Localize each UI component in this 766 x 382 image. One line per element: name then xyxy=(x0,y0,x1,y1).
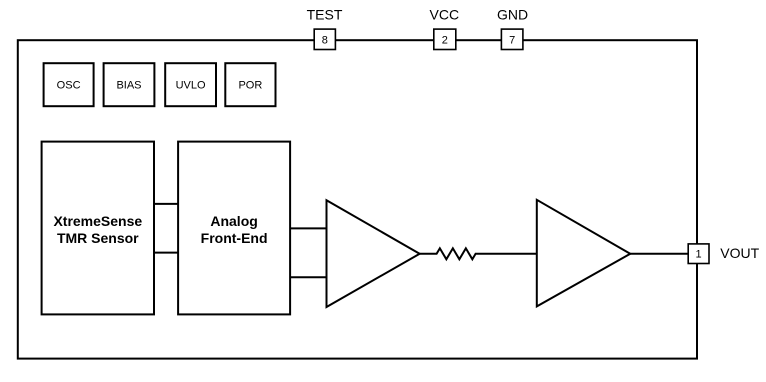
svg-text:POR: POR xyxy=(238,80,262,92)
svg-text:1: 1 xyxy=(696,249,702,261)
svg-text:GND: GND xyxy=(497,7,528,23)
svg-text:VCC: VCC xyxy=(430,7,460,23)
svg-text:Front-End: Front-End xyxy=(201,230,268,246)
svg-text:XtremeSense: XtremeSense xyxy=(53,213,142,229)
svg-text:8: 8 xyxy=(322,34,328,46)
svg-text:7: 7 xyxy=(509,34,515,46)
svg-text:TEST: TEST xyxy=(307,7,343,23)
svg-text:TMR Sensor: TMR Sensor xyxy=(57,230,139,246)
svg-text:UVLO: UVLO xyxy=(176,80,206,92)
svg-text:OSC: OSC xyxy=(57,80,81,92)
svg-text:Analog: Analog xyxy=(210,213,257,229)
svg-text:2: 2 xyxy=(442,34,448,46)
svg-text:VOUT: VOUT xyxy=(720,245,759,261)
svg-text:BIAS: BIAS xyxy=(116,80,141,92)
